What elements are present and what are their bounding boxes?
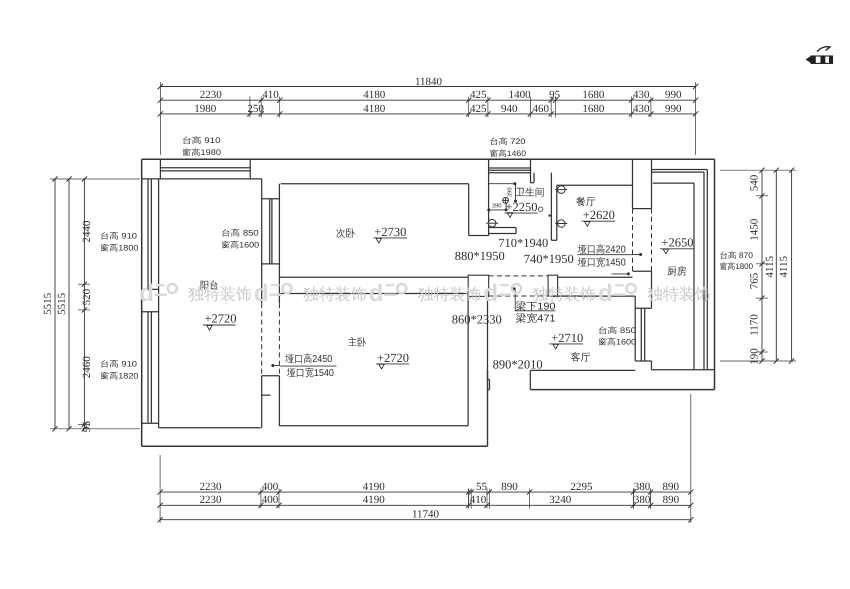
svg-text:独特装饰: 独特装饰	[188, 285, 252, 305]
bathroom south wall inner	[489, 227, 516, 229]
svg-text:独特装饰: 独特装饰	[418, 285, 482, 305]
svg-text:2440: 2440	[81, 220, 93, 243]
svg-text:独特装饰: 独特装饰	[303, 285, 367, 305]
svg-text:11840: 11840	[415, 76, 443, 88]
svg-text:1680: 1680	[582, 89, 605, 101]
bathroom door jamb west	[515, 228, 517, 234]
dining-kitchen wall column west	[632, 159, 634, 208]
dim bottom row2 ticks	[158, 503, 163, 508]
svg-text:台高 850: 台高 850	[221, 229, 259, 239]
bathroom top dim line	[489, 183, 515, 185]
dining-living wall top	[558, 276, 633, 278]
bathroom shaft bottom	[531, 182, 535, 184]
kitchen south inner wall	[652, 369, 715, 371]
svg-text:400: 400	[262, 494, 279, 506]
beam label underline	[515, 310, 555, 312]
bedroom2 door head cap	[469, 235, 489, 237]
dim left line inner	[83, 179, 85, 429]
dim right outer ticks	[774, 168, 779, 173]
svg-text:430: 430	[633, 103, 650, 115]
dim bottom row2 line	[160, 504, 691, 506]
svg-text:台高 870: 台高 870	[720, 251, 754, 261]
window W2 glass line a	[147, 312, 149, 423]
balcony top window jamb left	[159, 159, 161, 179]
bathroom vert dim line	[515, 184, 517, 201]
svg-text:垭口高2450: 垭口高2450	[284, 352, 332, 365]
svg-text:890: 890	[501, 481, 518, 493]
beam dashed top	[489, 275, 548, 277]
svg-text:2295: 2295	[571, 481, 594, 493]
svg-text:窗高1600: 窗高1600	[221, 241, 260, 251]
svg-text:d: d	[139, 280, 154, 307]
master south inner wall	[279, 425, 468, 427]
bedroom2 east wall	[468, 184, 470, 236]
svg-text:窗高1600: 窗高1600	[598, 337, 637, 347]
dim right line outer	[791, 170, 793, 361]
dining west wall	[556, 185, 558, 240]
left wall bottom block top	[142, 422, 159, 424]
bathroom small dot	[548, 214, 550, 216]
kitchen west window glass b	[644, 308, 646, 361]
svg-text:710*1940: 710*1940	[498, 236, 548, 250]
wall chunk mini step	[262, 394, 271, 396]
kitchen west wall lower	[651, 271, 653, 308]
wall balcony-bedroom east line	[278, 184, 280, 304]
svg-text:垭口宽1450: 垭口宽1450	[577, 255, 626, 268]
dim bottom overall line	[160, 519, 691, 521]
jamb block west	[468, 275, 489, 296]
beam leader dot	[513, 287, 516, 290]
svg-text:窗高1820: 窗高1820	[100, 371, 139, 381]
svg-text:+2620: +2620	[583, 208, 615, 222]
window W2 glass line b	[150, 312, 152, 423]
bathroom shaft inner line	[533, 173, 535, 183]
kitchen east window glass b	[706, 170, 708, 370]
svg-text:1170: 1170	[749, 314, 761, 336]
window W1 glass line b	[150, 179, 152, 290]
dining-kitchen opening head	[633, 208, 652, 210]
dim bottom row1 ticks	[158, 490, 163, 495]
svg-text:+2650: +2650	[661, 236, 693, 250]
dim top row ext lines	[249, 97, 251, 118]
kitchen corner line a	[652, 169, 708, 171]
svg-text:梁宽471: 梁宽471	[516, 312, 556, 325]
kitchen east window glass a	[703, 172, 705, 370]
entry jamb cap bottom	[488, 389, 490, 391]
svg-text:890: 890	[663, 481, 680, 493]
svg-text:窗高1800: 窗高1800	[100, 243, 139, 253]
svg-text:d: d	[369, 280, 384, 307]
wall outer left	[141, 159, 143, 446]
beam leader line	[514, 289, 516, 311]
svg-text:+2720: +2720	[377, 351, 409, 365]
left wall mid block top	[142, 288, 159, 290]
svg-text:台高 910: 台高 910	[100, 232, 138, 242]
bathroom east wall	[550, 173, 552, 241]
svg-text:2230: 2230	[200, 89, 223, 101]
svg-text:740*1950: 740*1950	[524, 252, 574, 266]
bathroom dim dot a	[487, 208, 490, 211]
svg-text:独特装饰: 独特装饰	[532, 285, 596, 305]
svg-text:次卧: 次卧	[336, 227, 355, 240]
wall chunk below opening cap	[262, 375, 280, 377]
dim right line mid	[775, 170, 777, 361]
dim left top ext	[50, 178, 140, 180]
svg-text:11740: 11740	[412, 508, 440, 520]
bathroom drain connector	[505, 203, 507, 210]
dim left mid ext lines	[78, 283, 90, 285]
beam dashed bottom	[489, 295, 548, 297]
dim right top ext	[720, 169, 796, 171]
svg-text:390: 390	[507, 187, 514, 197]
dim right seg ticks	[759, 168, 764, 173]
svg-text:890*2010: 890*2010	[493, 357, 543, 371]
svg-text:台高 720: 台高 720	[490, 137, 527, 147]
svg-text:d: d	[598, 280, 613, 307]
bedroom2 north inner wall	[281, 183, 469, 185]
svg-text:250: 250	[247, 103, 264, 115]
dim bottom ext right	[690, 394, 692, 523]
dim right seg ext lines	[756, 195, 768, 197]
dim top ext right	[695, 82, 697, 155]
wall outer top	[142, 158, 715, 160]
dim top overall line	[160, 86, 695, 88]
living west wall line	[487, 296, 489, 379]
svg-text:5515: 5515	[42, 292, 54, 315]
dim bottom row ext lines	[260, 489, 262, 509]
svg-text:+2730: +2730	[374, 225, 406, 239]
dim left line outer	[54, 179, 56, 429]
dining north inner wall	[557, 184, 633, 186]
level triangle kitchen	[663, 249, 669, 254]
svg-text:4115: 4115	[764, 256, 776, 278]
wall outer bottom-left block	[142, 445, 488, 447]
svg-text:台高 850: 台高 850	[598, 326, 637, 336]
svg-text:1400: 1400	[509, 89, 532, 101]
bathroom south wall outer	[489, 233, 516, 235]
svg-text:4115: 4115	[778, 256, 790, 278]
svg-text:940: 940	[501, 103, 518, 115]
dim bottom row1 line	[160, 491, 691, 493]
yakou master leader	[273, 365, 280, 367]
balcony top window glass a	[160, 167, 250, 169]
svg-text:55: 55	[476, 481, 488, 493]
dim top row1 line	[160, 99, 695, 101]
svg-text:台高 910: 台高 910	[182, 136, 221, 146]
kitchen west window bottom	[635, 360, 651, 362]
svg-text:520: 520	[81, 288, 93, 305]
svg-text:客厅: 客厅	[571, 350, 591, 363]
wall balcony-bedroom head	[262, 198, 280, 200]
dim top overall ticks	[158, 84, 163, 89]
svg-text:+2250: +2250	[506, 200, 538, 214]
svg-text:380: 380	[634, 494, 651, 506]
entry door jamb west line	[489, 380, 491, 390]
svg-text:d: d	[254, 280, 269, 307]
level triangle ciwo	[376, 238, 382, 243]
dining-kitchen wall column east	[651, 159, 653, 208]
bathroom dim line	[489, 209, 506, 211]
jamb block east	[548, 275, 558, 296]
svg-text:4180: 4180	[363, 89, 386, 101]
kitchen west window top	[635, 307, 651, 309]
wall outer right	[714, 159, 716, 389]
svg-text:460: 460	[533, 103, 550, 115]
svg-text:3240: 3240	[549, 494, 572, 506]
level triangle balcony	[207, 325, 213, 330]
level triangle dining	[585, 222, 591, 227]
bathroom shaft west line	[530, 159, 532, 183]
level triangle living	[553, 344, 559, 349]
watermark band	[139, 280, 252, 307]
svg-text:425: 425	[470, 89, 487, 101]
bathroom drain symbol	[503, 198, 509, 204]
master north wall	[279, 293, 468, 295]
svg-text:410: 410	[262, 89, 279, 101]
north arrow symbol	[817, 47, 830, 52]
dining hinge symbol top	[558, 186, 566, 194]
balcony south inner wall	[159, 427, 261, 429]
entry door jamb east	[529, 370, 531, 389]
svg-text:独特装饰: 独特装饰	[647, 285, 711, 305]
kitchen west window west line	[634, 296, 636, 361]
svg-text:410: 410	[470, 494, 487, 506]
dim left line mid	[68, 179, 70, 429]
svg-text:540: 540	[749, 174, 761, 191]
window W1 glass line a	[147, 179, 149, 290]
wall chunk east line	[278, 376, 280, 426]
svg-text:765: 765	[749, 272, 761, 289]
svg-text:d: d	[483, 280, 498, 307]
svg-text:4190: 4190	[363, 494, 386, 506]
balcony top window glass b	[160, 170, 250, 172]
kitchen corner line b	[652, 171, 705, 173]
level triangle bath	[507, 213, 513, 218]
level circle bath	[539, 207, 543, 211]
svg-text:4190: 4190	[363, 481, 386, 493]
yakou master underline	[280, 365, 337, 367]
dim top ext left	[159, 82, 161, 155]
dim top row2 line	[160, 113, 695, 115]
window W3 glass b	[271, 199, 273, 264]
svg-text:990: 990	[665, 89, 682, 101]
svg-text:400: 400	[262, 481, 279, 493]
kitchen west window glass a	[640, 308, 642, 361]
svg-text:430: 430	[633, 89, 650, 101]
svg-text:1980: 1980	[194, 103, 217, 115]
yakou dining underline	[578, 254, 633, 256]
svg-text:880*1950: 880*1950	[455, 249, 505, 263]
bathroom north window glass b	[489, 169, 531, 171]
balcony top window jamb right	[249, 159, 251, 179]
opening kitchen dashed west	[632, 209, 634, 272]
svg-text:餐厅: 餐厅	[576, 195, 596, 208]
dim bottom ext left	[159, 455, 161, 523]
opening master dashed west	[261, 303, 263, 376]
wall step balcony NE	[261, 179, 263, 303]
dim right line seg	[761, 170, 763, 361]
opening kitchen bottom line	[633, 270, 652, 272]
bathroom valve symbol SW	[488, 219, 496, 227]
master east wall	[467, 294, 469, 426]
dim left bottom ext	[50, 428, 140, 430]
window W3 sill	[262, 263, 280, 265]
dim top row2 ticks	[158, 111, 163, 116]
svg-text:+2710: +2710	[551, 331, 583, 345]
kitchen west wall stub	[651, 361, 653, 370]
level triangle master	[379, 364, 385, 369]
svg-text:390: 390	[492, 203, 502, 210]
left wall inner line	[158, 179, 160, 428]
window W3 glass a	[269, 199, 271, 264]
svg-text:380: 380	[634, 481, 651, 493]
balcony top window sill	[142, 178, 262, 180]
bathroom north window glass a	[489, 167, 531, 169]
dim right bottom ext	[720, 360, 796, 362]
kitchen north inner wall	[653, 182, 694, 184]
svg-text:2230: 2230	[200, 481, 223, 493]
wall outer bottom-right block	[530, 389, 714, 391]
dim top row1 ticks	[158, 98, 163, 103]
bathroom west wall	[488, 159, 490, 235]
svg-text:卫生间: 卫生间	[516, 185, 545, 198]
svg-text:窗高1980: 窗高1980	[182, 148, 222, 158]
svg-text:厨房: 厨房	[667, 265, 687, 278]
svg-text:+2720: +2720	[205, 312, 237, 326]
svg-text:95: 95	[81, 421, 93, 433]
svg-text:2230: 2230	[200, 494, 223, 506]
living north wall	[548, 295, 635, 297]
wall chunk west line	[261, 376, 263, 428]
left wall mid block bottom	[142, 311, 159, 313]
svg-text:垭口宽1540: 垭口宽1540	[286, 366, 334, 379]
kitchen east inner wall	[693, 183, 695, 370]
svg-text:台高 910: 台高 910	[100, 360, 138, 370]
svg-text:窗高1460: 窗高1460	[490, 149, 527, 159]
door 740 head cap	[551, 239, 556, 241]
svg-text:5515: 5515	[56, 292, 68, 315]
dim left inner ticks	[82, 176, 87, 181]
svg-text:860*2330: 860*2330	[452, 313, 502, 327]
svg-text:1450: 1450	[749, 218, 761, 241]
svg-text:窗高1800: 窗高1800	[720, 262, 754, 272]
svg-text:425: 425	[470, 103, 487, 115]
bedroom2/master divider top	[279, 276, 468, 278]
svg-text:1680: 1680	[582, 103, 605, 115]
svg-text:垭口高2420: 垭口高2420	[577, 243, 626, 256]
svg-text:2460: 2460	[81, 356, 93, 379]
wall step entry east side	[487, 370, 489, 446]
bathroom north window sill	[489, 172, 531, 174]
svg-text:990: 990	[665, 103, 682, 115]
svg-text:190: 190	[749, 348, 761, 365]
bathroom dim dot b	[505, 208, 508, 211]
svg-text:890: 890	[663, 494, 680, 506]
yakou dining leader	[633, 254, 641, 256]
svg-text:95: 95	[549, 89, 561, 101]
svg-text:主卧: 主卧	[348, 336, 366, 349]
entry jamb cap top	[488, 379, 490, 381]
dim bottom overall ticks	[158, 517, 163, 522]
opening master dashed east	[278, 303, 280, 376]
dining hinge symbol bottom	[558, 220, 566, 228]
dim left outer ticks	[52, 176, 57, 181]
living south inner wall	[530, 369, 635, 371]
svg-text:4180: 4180	[363, 103, 386, 115]
yakou dining leader2	[612, 273, 629, 275]
opening kitchen dashed east	[651, 209, 653, 272]
